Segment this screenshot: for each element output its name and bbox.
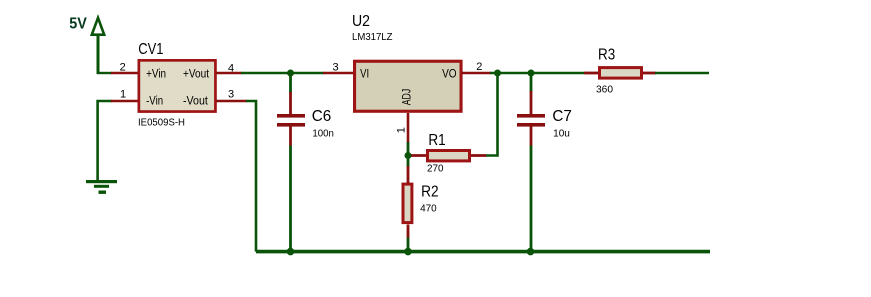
wire ADJ to node <box>407 142 410 156</box>
node junction C6 top <box>287 70 294 77</box>
node junction ADJ/R1/R2 <box>405 152 412 159</box>
svg-text:C6: C6 <box>312 108 332 125</box>
node junction R2 bottom <box>404 248 412 256</box>
wire VO node down to R1 <box>485 74 498 156</box>
svg-text:LM317LZ: LM317LZ <box>352 32 393 43</box>
capacitor C7 <box>517 74 572 252</box>
svg-text:CV1: CV1 <box>138 41 163 58</box>
capacitor C6 <box>277 74 334 252</box>
converter CV1 <box>138 41 215 129</box>
svg-text:1: 1 <box>396 127 408 133</box>
pin 2 stub of U2 (VO) <box>462 72 491 75</box>
svg-text:U2: U2 <box>352 13 370 30</box>
node junction C7 bottom <box>527 248 535 256</box>
svg-text:R2: R2 <box>421 184 439 201</box>
wire pin4 to VI <box>241 72 324 74</box>
regulator U2 <box>352 13 461 111</box>
ground rail wire <box>256 250 710 254</box>
svg-text:+Vout: +Vout <box>183 69 210 81</box>
svg-text:470: 470 <box>420 204 437 215</box>
node junction C6 bottom <box>287 248 295 256</box>
svg-text:VI: VI <box>360 69 369 81</box>
svg-text:3: 3 <box>228 88 234 100</box>
node junction VO <box>494 70 501 77</box>
svg-text:-Vout: -Vout <box>183 96 209 108</box>
svg-text:3: 3 <box>333 62 339 74</box>
svg-text:+Vin: +Vin <box>146 69 166 81</box>
pin 4 stub of CV1 <box>216 72 242 75</box>
pin 3 stub of CV1 (-Vout) <box>216 100 247 103</box>
svg-text:100n: 100n <box>312 128 334 139</box>
pin 1 stub of CV1 <box>111 100 138 103</box>
wire 5V to +Vin <box>97 72 112 74</box>
svg-text:10u: 10u <box>553 128 570 139</box>
pin 2 stub of CV1 <box>111 72 138 75</box>
svg-text:2: 2 <box>476 61 482 73</box>
pin 3 stub of U2 (VI) <box>323 72 353 75</box>
svg-text:R3: R3 <box>598 47 615 64</box>
resistor R1 <box>409 132 486 175</box>
svg-text:IE0509S-H: IE0509S-H <box>138 118 185 129</box>
svg-text:C7: C7 <box>552 108 572 125</box>
resistor R3 <box>584 47 709 96</box>
wire -Vin to ground <box>98 101 112 181</box>
resistor R2 <box>403 156 439 252</box>
svg-text:2: 2 <box>120 62 126 74</box>
svg-text:4: 4 <box>228 62 234 74</box>
ground <box>86 180 117 194</box>
svg-text:ADJ: ADJ <box>402 89 414 106</box>
pin ADJ stub (1) <box>407 113 410 143</box>
svg-text:-Vin: -Vin <box>146 96 163 108</box>
svg-text:VO: VO <box>442 69 457 81</box>
svg-text:1: 1 <box>120 88 126 100</box>
svg-text:270: 270 <box>427 164 444 175</box>
svg-text:R1: R1 <box>428 132 445 149</box>
svg-text:5V: 5V <box>69 16 87 33</box>
wire -Vout down to ground rail <box>246 101 256 252</box>
power symbol 5V arrow <box>92 18 104 74</box>
node junction C7 top <box>528 70 535 77</box>
svg-text:360: 360 <box>596 85 613 96</box>
wire VO to R3 <box>490 72 585 74</box>
